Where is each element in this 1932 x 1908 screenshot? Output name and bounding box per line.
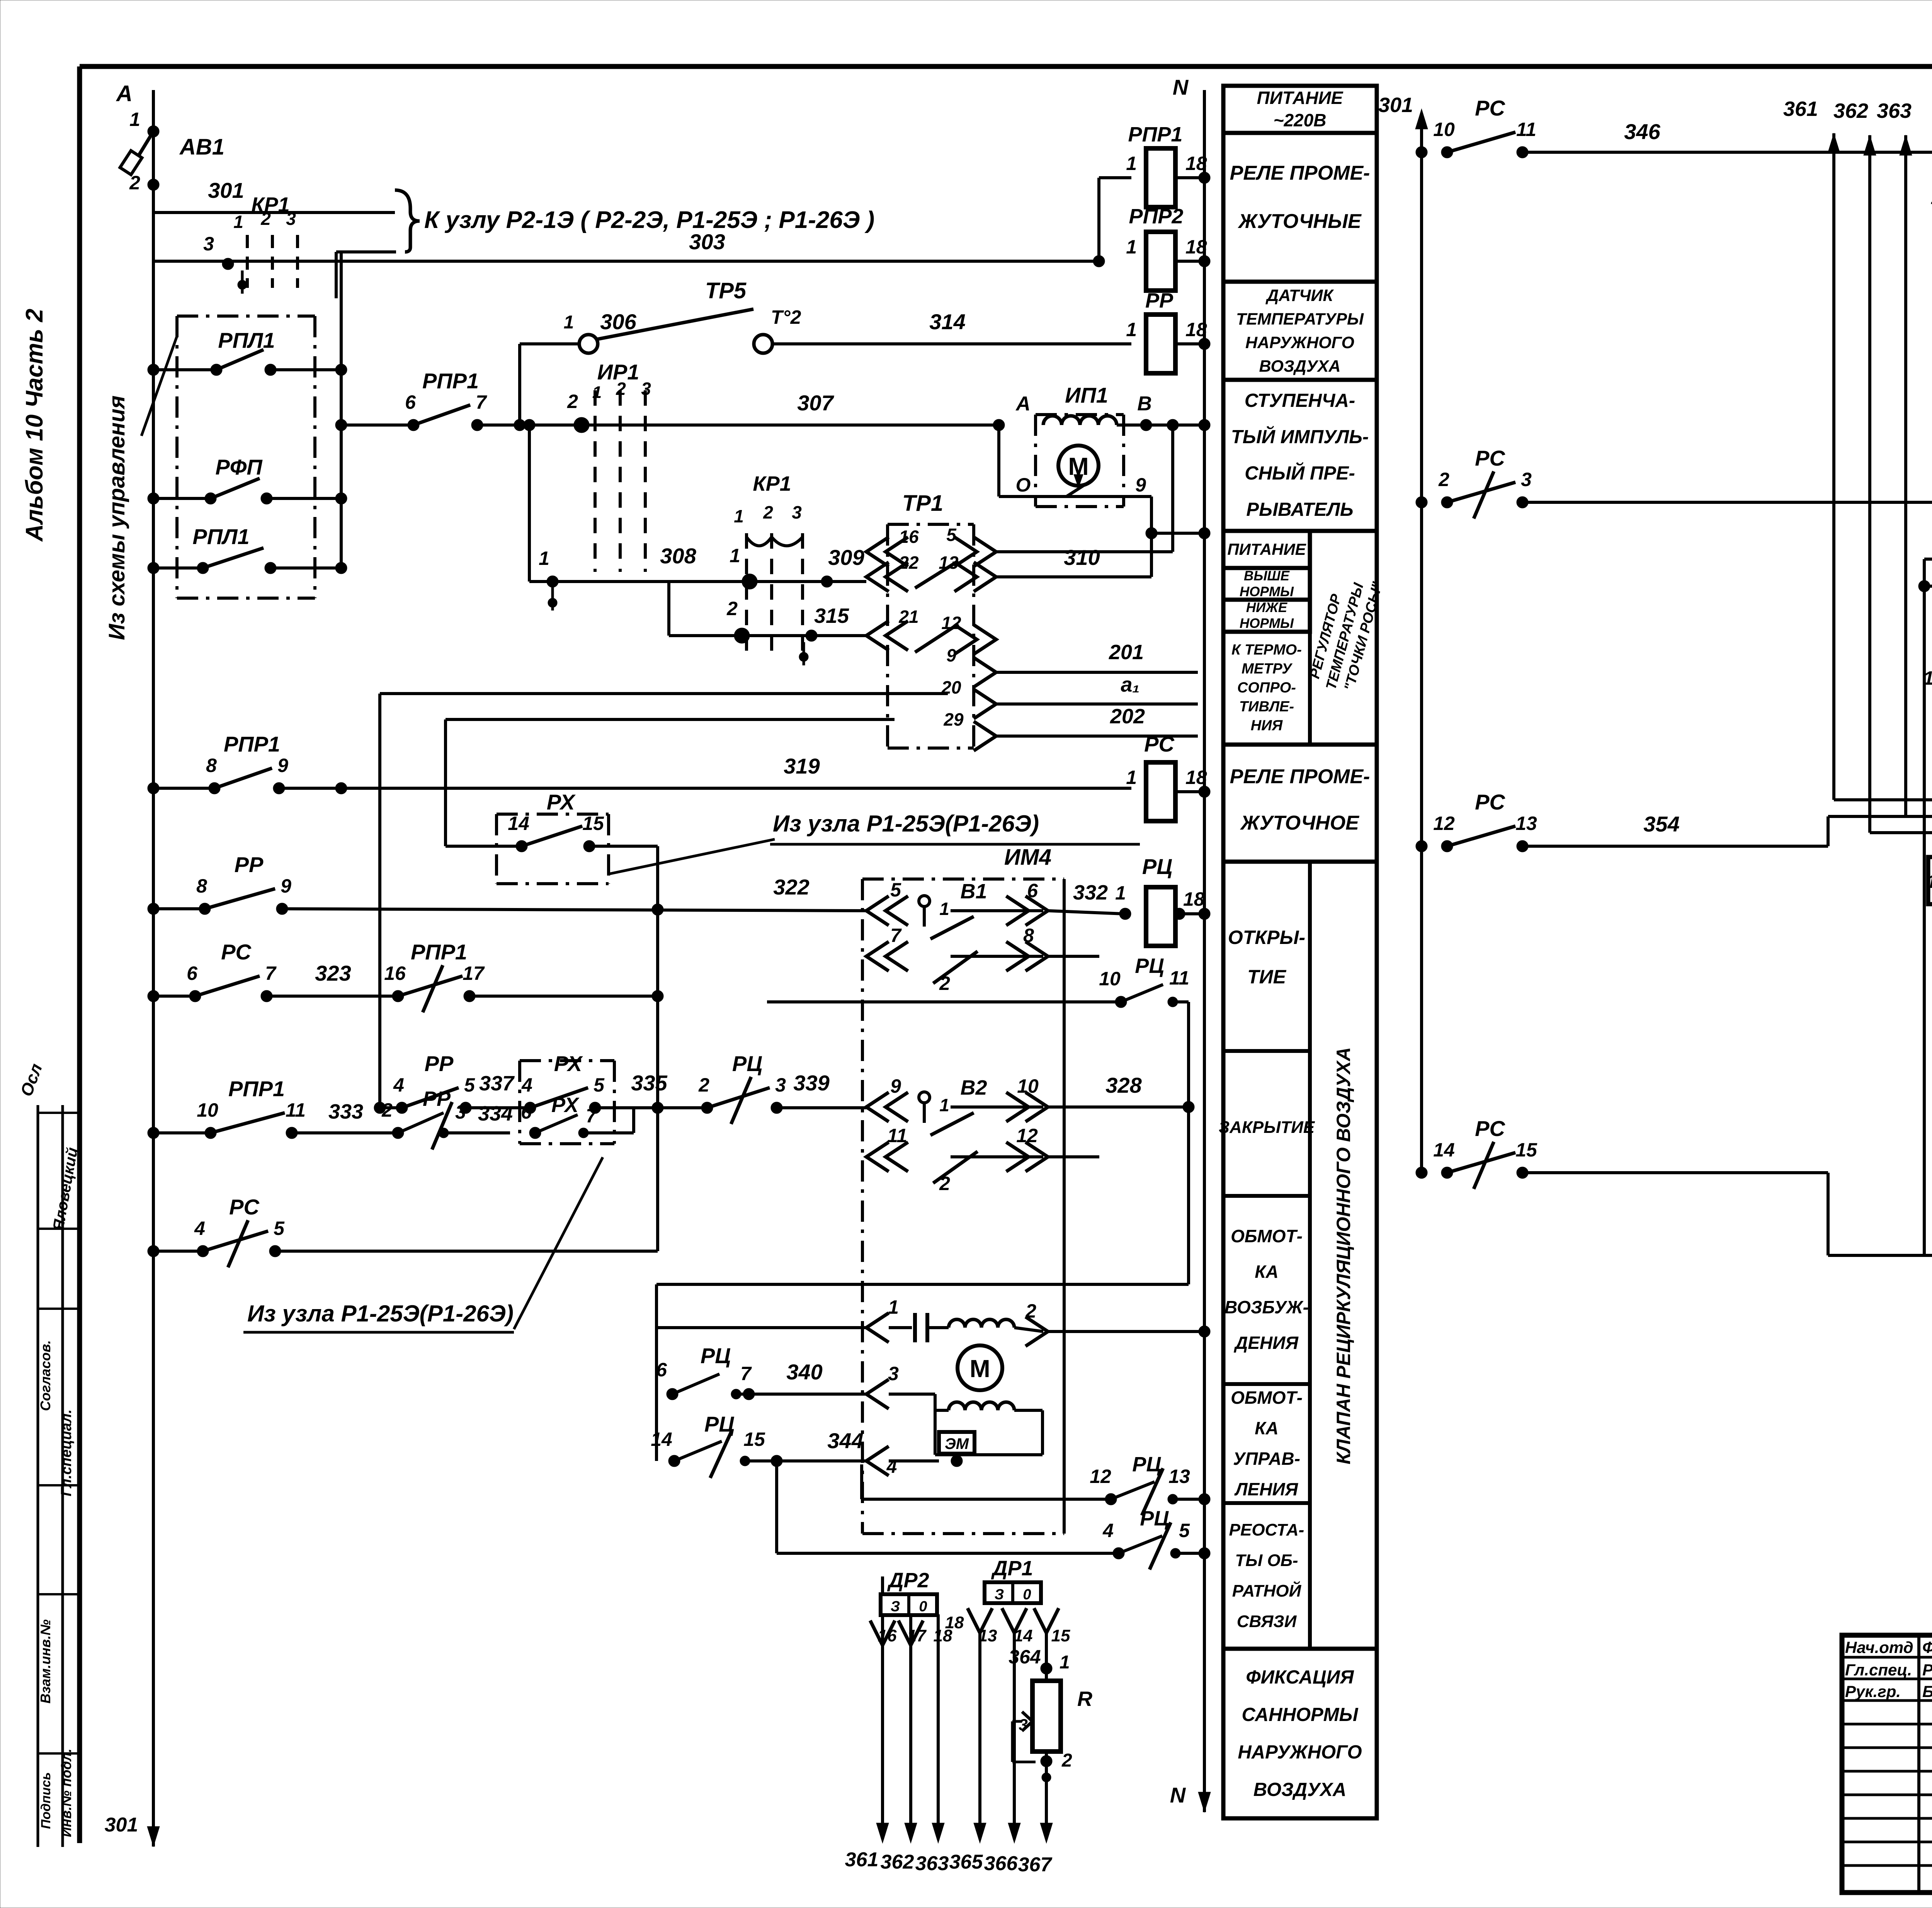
svg-text:4: 4 xyxy=(194,1218,205,1239)
svg-text:18: 18 xyxy=(1185,319,1207,340)
svg-text:УПРАВ-: УПРАВ- xyxy=(1233,1449,1300,1469)
svg-text:РПЛ1: РПЛ1 xyxy=(218,328,275,352)
svg-text:9: 9 xyxy=(946,645,956,665)
svg-text:16: 16 xyxy=(878,1626,897,1645)
svg-text:319: 319 xyxy=(784,754,820,778)
svg-text:307: 307 xyxy=(797,391,834,415)
svg-text:14: 14 xyxy=(651,1428,672,1450)
svg-text:2: 2 xyxy=(616,379,626,399)
svg-text:12: 12 xyxy=(1090,1466,1111,1487)
svg-text:2: 2 xyxy=(939,1173,950,1194)
svg-text:З: З xyxy=(891,1599,900,1615)
svg-text:328: 328 xyxy=(1105,1073,1142,1097)
svg-text:Т°2: Т°2 xyxy=(771,306,801,328)
svg-text:301: 301 xyxy=(105,1814,138,1836)
svg-text:0: 0 xyxy=(1023,1587,1031,1603)
svg-text:362: 362 xyxy=(1833,99,1868,122)
svg-text:3: 3 xyxy=(1019,1716,1027,1734)
svg-text:РС: РС xyxy=(221,940,252,964)
svg-text:3: 3 xyxy=(792,502,802,522)
svg-text:ПИТАНИЕ: ПИТАНИЕ xyxy=(1227,540,1306,558)
svg-text:11: 11 xyxy=(1516,119,1536,140)
svg-text:РФП: РФП xyxy=(215,455,263,479)
svg-text:10: 10 xyxy=(197,1099,218,1121)
svg-text:РЕЛЕ ПРОМЕ-: РЕЛЕ ПРОМЕ- xyxy=(1230,162,1370,184)
svg-text:МЕТРУ: МЕТРУ xyxy=(1242,661,1293,677)
svg-text:5: 5 xyxy=(1179,1520,1190,1541)
svg-text:3: 3 xyxy=(888,1363,899,1384)
svg-text:РС: РС xyxy=(1475,96,1505,120)
svg-text:18: 18 xyxy=(945,1613,964,1632)
svg-text:Альбом 10 Часть 2: Альбом 10 Часть 2 xyxy=(21,309,48,542)
svg-text:ТР5: ТР5 xyxy=(705,278,747,303)
svg-text:339: 339 xyxy=(793,1071,829,1095)
svg-text:1: 1 xyxy=(129,109,140,130)
svg-text:ВОЗДУХА: ВОЗДУХА xyxy=(1253,1779,1346,1800)
svg-text:8: 8 xyxy=(196,875,207,897)
svg-text:7: 7 xyxy=(890,925,902,946)
svg-text:354: 354 xyxy=(1643,812,1679,836)
svg-text:РЦ: РЦ xyxy=(1132,1453,1161,1476)
svg-text:4: 4 xyxy=(1102,1520,1114,1541)
svg-text:1: 1 xyxy=(730,545,740,566)
svg-text:А: А xyxy=(116,81,133,106)
svg-text:15: 15 xyxy=(582,813,604,834)
svg-text:13: 13 xyxy=(1168,1466,1190,1487)
svg-text:КА: КА xyxy=(1255,1418,1279,1438)
svg-text:Рук.гр.: Рук.гр. xyxy=(1845,1682,1901,1701)
svg-text:ТЫЙ ИМПУЛЬ-: ТЫЙ ИМПУЛЬ- xyxy=(1231,426,1369,447)
svg-text:2: 2 xyxy=(939,973,950,994)
svg-text:РС: РС xyxy=(229,1195,260,1219)
svg-text:N: N xyxy=(1173,75,1189,99)
svg-text:1: 1 xyxy=(939,899,949,919)
svg-text:РЦ: РЦ xyxy=(701,1343,731,1368)
svg-text:310: 310 xyxy=(1064,545,1100,570)
svg-text:1: 1 xyxy=(539,548,549,569)
svg-text:ВОЗБУЖ-: ВОЗБУЖ- xyxy=(1225,1297,1309,1317)
svg-text:16: 16 xyxy=(384,963,406,984)
svg-text:17: 17 xyxy=(463,963,485,984)
svg-text:2: 2 xyxy=(726,598,738,619)
svg-text:9: 9 xyxy=(277,755,288,776)
svg-text:22: 22 xyxy=(898,553,919,573)
svg-text:6: 6 xyxy=(1027,880,1038,901)
svg-text:1: 1 xyxy=(1126,236,1137,258)
svg-text:1: 1 xyxy=(1927,872,1932,892)
svg-text:7: 7 xyxy=(265,963,277,984)
svg-text:2: 2 xyxy=(567,391,578,412)
svg-text:2: 2 xyxy=(381,1099,393,1121)
svg-text:2: 2 xyxy=(129,172,140,194)
svg-text:ДАТЧИК: ДАТЧИК xyxy=(1265,286,1334,305)
svg-text:14: 14 xyxy=(1014,1626,1033,1645)
svg-text:6: 6 xyxy=(656,1359,667,1381)
svg-text:а₁: а₁ xyxy=(1121,673,1139,696)
svg-text:3: 3 xyxy=(775,1074,786,1096)
svg-text:323: 323 xyxy=(315,961,351,985)
svg-text:Из узла Р1-25Э(Р1-26Э): Из узла Р1-25Э(Р1-26Э) xyxy=(247,1301,514,1326)
svg-text:ТЕМПЕРАТУРЫ: ТЕМПЕРАТУРЫ xyxy=(1236,310,1364,328)
svg-text:ФИКСАЦИЯ: ФИКСАЦИЯ xyxy=(1246,1667,1354,1688)
svg-text:СВЯЗИ: СВЯЗИ xyxy=(1237,1612,1297,1631)
svg-text:8: 8 xyxy=(1023,925,1034,946)
svg-text:Бронштейн: Бронштейн xyxy=(1922,1682,1932,1701)
svg-text:ТЫ ОБ-: ТЫ ОБ- xyxy=(1235,1551,1298,1570)
svg-text:315: 315 xyxy=(814,604,849,627)
svg-text:7: 7 xyxy=(740,1363,752,1384)
svg-text:РР: РР xyxy=(235,852,264,877)
svg-text:5: 5 xyxy=(274,1218,285,1239)
svg-text:1: 1 xyxy=(233,212,243,232)
svg-text:8: 8 xyxy=(206,755,217,776)
svg-text:З: З xyxy=(995,1587,1004,1603)
svg-text:13: 13 xyxy=(1515,813,1537,834)
svg-text:337: 337 xyxy=(479,1072,515,1095)
svg-text:15: 15 xyxy=(743,1428,765,1450)
svg-text:НИЖЕ: НИЖЕ xyxy=(1246,600,1288,615)
svg-text:ДР2: ДР2 xyxy=(887,1569,929,1592)
svg-text:1: 1 xyxy=(1126,153,1137,174)
svg-text:362: 362 xyxy=(881,1851,914,1873)
svg-text:18: 18 xyxy=(1185,236,1207,258)
svg-text:РС: РС xyxy=(1475,1116,1505,1141)
svg-text:301: 301 xyxy=(208,178,244,202)
svg-text:10: 10 xyxy=(1099,968,1121,990)
svg-text:РР: РР xyxy=(423,1087,451,1110)
svg-text:Из схемы управления: Из схемы управления xyxy=(104,395,129,640)
svg-text:9: 9 xyxy=(281,875,291,897)
svg-text:1: 1 xyxy=(939,1095,949,1115)
svg-text:РХ: РХ xyxy=(547,790,576,814)
svg-text:6: 6 xyxy=(187,963,198,984)
svg-text:12: 12 xyxy=(1016,1125,1038,1146)
svg-text:363: 363 xyxy=(1877,99,1912,122)
svg-text:4: 4 xyxy=(521,1074,532,1096)
svg-text:СТУПЕНЧА-: СТУПЕНЧА- xyxy=(1245,390,1355,411)
svg-text:11: 11 xyxy=(286,1099,306,1121)
svg-text:ЗАКРЫТИЕ: ЗАКРЫТИЕ xyxy=(1219,1118,1315,1137)
svg-text:РХ: РХ xyxy=(554,1051,583,1076)
svg-text:308: 308 xyxy=(660,544,696,568)
svg-text:~220В: ~220В xyxy=(1274,110,1327,130)
svg-text:11: 11 xyxy=(887,1125,907,1146)
svg-text:РЦ: РЦ xyxy=(704,1412,735,1436)
svg-text:9: 9 xyxy=(890,1075,901,1097)
svg-text:РПР1: РПР1 xyxy=(228,1076,285,1101)
svg-text:РЦ: РЦ xyxy=(1135,954,1164,978)
svg-text:Фингер: Фингер xyxy=(1922,1638,1932,1656)
svg-text:ОБМОТ-: ОБМОТ- xyxy=(1231,1226,1303,1246)
svg-text:РПР1: РПР1 xyxy=(1128,123,1183,146)
svg-text:РС: РС xyxy=(1144,732,1175,756)
svg-text:ВЫШЕ: ВЫШЕ xyxy=(1244,568,1290,583)
svg-text:О: О xyxy=(1016,474,1031,496)
svg-text:Взам.инв.№: Взам.инв.№ xyxy=(37,1619,53,1704)
svg-text:309: 309 xyxy=(828,545,864,570)
svg-text:12: 12 xyxy=(1433,813,1455,834)
svg-text:ИМ4: ИМ4 xyxy=(1004,845,1051,870)
svg-text:0: 0 xyxy=(919,1599,927,1615)
svg-text:ЛЕНИЯ: ЛЕНИЯ xyxy=(1234,1479,1299,1499)
svg-text:АВ1: АВ1 xyxy=(179,134,224,160)
svg-text:КР1: КР1 xyxy=(251,193,289,216)
svg-text:ТР1: ТР1 xyxy=(902,491,943,516)
svg-text:К узлу Р2-1Э ( Р2-2Э, Р1-25Э ;: К узлу Р2-1Э ( Р2-2Э, Р1-25Э ; Р1-26Э ) xyxy=(424,207,874,233)
svg-text:РР: РР xyxy=(1145,289,1173,312)
svg-text:2: 2 xyxy=(763,502,773,522)
svg-text:СОПРО-: СОПРО- xyxy=(1237,680,1296,696)
svg-text:364: 364 xyxy=(1009,1646,1041,1668)
svg-text:2: 2 xyxy=(1061,1750,1072,1771)
svg-text:ЖУТОЧНОЕ: ЖУТОЧНОЕ xyxy=(1240,812,1359,834)
svg-text:РАТНОЙ: РАТНОЙ xyxy=(1232,1581,1302,1600)
svg-text:10: 10 xyxy=(1433,119,1455,140)
svg-text:РС: РС xyxy=(1475,790,1505,814)
svg-text:3: 3 xyxy=(641,379,651,399)
svg-text:Инв.№ подл.: Инв.№ подл. xyxy=(58,1748,74,1837)
svg-text:НИЯ: НИЯ xyxy=(1251,718,1283,734)
svg-text:РПР1: РПР1 xyxy=(224,732,280,756)
svg-text:301: 301 xyxy=(1378,94,1413,117)
svg-text:17: 17 xyxy=(907,1626,927,1645)
svg-text:Подпись: Подпись xyxy=(39,1772,53,1829)
svg-text:344: 344 xyxy=(827,1428,863,1453)
svg-text:НОРМЫ: НОРМЫ xyxy=(1240,616,1294,631)
svg-text:РПР1: РПР1 xyxy=(422,369,479,393)
svg-text:РПР1: РПР1 xyxy=(411,940,467,964)
svg-text:ДЕНИЯ: ДЕНИЯ xyxy=(1233,1333,1299,1353)
svg-text:5: 5 xyxy=(464,1074,475,1096)
svg-text:363: 363 xyxy=(915,1852,949,1875)
svg-text:В: В xyxy=(1137,393,1152,415)
svg-text:5: 5 xyxy=(946,525,957,545)
svg-text:314: 314 xyxy=(929,309,965,334)
svg-text:361: 361 xyxy=(845,1848,879,1871)
svg-text:РХ: РХ xyxy=(551,1093,580,1117)
svg-text:1: 1 xyxy=(1126,319,1137,340)
svg-text:Рубчинский: Рубчинский xyxy=(1922,1661,1932,1679)
svg-text:334: 334 xyxy=(478,1102,513,1125)
svg-text:ПИТАНИЕ: ПИТАНИЕ xyxy=(1257,88,1344,108)
svg-text:15: 15 xyxy=(1515,1139,1537,1161)
svg-text:1: 1 xyxy=(1115,882,1126,904)
svg-text:6: 6 xyxy=(405,391,416,413)
svg-text:29: 29 xyxy=(943,709,964,730)
svg-text:10: 10 xyxy=(1017,1075,1039,1097)
svg-text:1: 1 xyxy=(1931,188,1932,208)
svg-text:16: 16 xyxy=(899,527,919,547)
svg-text:1: 1 xyxy=(734,506,744,526)
svg-text:361: 361 xyxy=(1783,97,1818,121)
svg-text:К ТЕРМО-: К ТЕРМО- xyxy=(1231,642,1302,658)
svg-text:РПЛ1: РПЛ1 xyxy=(192,524,249,549)
svg-text:В1: В1 xyxy=(960,880,987,903)
svg-text:201: 201 xyxy=(1109,641,1144,664)
svg-text:14: 14 xyxy=(1923,667,1932,689)
svg-text:14: 14 xyxy=(508,813,529,834)
svg-text:N: N xyxy=(1170,1783,1186,1807)
svg-text:Нач.отд: Нач.отд xyxy=(1845,1638,1913,1656)
svg-text:11: 11 xyxy=(1169,967,1189,989)
svg-text:КР1: КР1 xyxy=(753,472,791,495)
svg-text:202: 202 xyxy=(1110,705,1145,728)
svg-text:322: 322 xyxy=(773,875,809,899)
svg-text:5: 5 xyxy=(594,1074,605,1096)
svg-text:7: 7 xyxy=(476,391,487,413)
svg-text:332: 332 xyxy=(1073,881,1108,904)
svg-text:5: 5 xyxy=(890,879,901,901)
svg-text:САННОРМЫ: САННОРМЫ xyxy=(1242,1704,1359,1725)
svg-text:1: 1 xyxy=(888,1296,899,1318)
svg-text:М: М xyxy=(969,1355,990,1383)
svg-text:333: 333 xyxy=(328,1100,363,1123)
svg-text:2: 2 xyxy=(1438,469,1449,490)
svg-text:4: 4 xyxy=(393,1074,404,1096)
svg-text:2: 2 xyxy=(698,1074,709,1096)
svg-text:РЦ: РЦ xyxy=(1140,1507,1169,1530)
svg-text:1: 1 xyxy=(592,383,602,402)
svg-text:1: 1 xyxy=(1060,1652,1070,1673)
svg-text:РЫВАТЕЛЬ: РЫВАТЕЛЬ xyxy=(1246,499,1353,520)
svg-text:306: 306 xyxy=(600,309,636,334)
svg-text:ЖУТОЧНЫЕ: ЖУТОЧНЫЕ xyxy=(1237,210,1362,233)
svg-text:НОРМЫ: НОРМЫ xyxy=(1240,584,1294,599)
svg-text:Согласов.: Согласов. xyxy=(37,1340,53,1411)
svg-text:340: 340 xyxy=(786,1360,822,1384)
svg-text:14: 14 xyxy=(1433,1139,1455,1161)
svg-text:Гл.специал.: Гл.специал. xyxy=(58,1409,75,1496)
svg-text:НАРУЖНОГО: НАРУЖНОГО xyxy=(1245,333,1354,352)
svg-text:365: 365 xyxy=(949,1851,983,1873)
svg-text:А: А xyxy=(1015,393,1031,415)
svg-text:ИП1: ИП1 xyxy=(1065,383,1108,407)
svg-text:1: 1 xyxy=(1126,767,1137,788)
svg-text:3: 3 xyxy=(203,233,214,255)
svg-text:Из узла Р1-25Э(Р1-26Э): Из узла Р1-25Э(Р1-26Э) xyxy=(773,811,1039,837)
svg-text:2: 2 xyxy=(1025,1300,1036,1322)
svg-text:РЕОСТА-: РЕОСТА- xyxy=(1229,1520,1304,1539)
svg-text:18: 18 xyxy=(1183,888,1205,910)
svg-text:ОТКРЫ-: ОТКРЫ- xyxy=(1228,927,1305,948)
svg-text:335: 335 xyxy=(631,1071,667,1095)
svg-text:303: 303 xyxy=(689,230,725,254)
svg-text:КА: КА xyxy=(1255,1262,1279,1282)
svg-text:R: R xyxy=(1077,1687,1092,1711)
svg-text:РПР2: РПР2 xyxy=(1129,205,1184,228)
svg-text:РЦ: РЦ xyxy=(1142,854,1172,879)
svg-text:РЕЛЕ ПРОМЕ-: РЕЛЕ ПРОМЕ- xyxy=(1230,765,1370,788)
svg-text:ДР1: ДР1 xyxy=(991,1557,1033,1580)
svg-text:СНЫЙ ПРЕ-: СНЫЙ ПРЕ- xyxy=(1245,463,1355,484)
svg-text:ОБМОТ-: ОБМОТ- xyxy=(1231,1388,1303,1408)
svg-text:КЛАПАН РЕЦИРКУЛЯЦИОННОГО ВОЗДУ: КЛАПАН РЕЦИРКУЛЯЦИОННОГО ВОЗДУХА xyxy=(1333,1047,1354,1464)
svg-text:3: 3 xyxy=(1521,469,1532,490)
svg-text:ЭМ: ЭМ xyxy=(945,1435,969,1452)
svg-text:РС: РС xyxy=(1475,446,1505,470)
svg-text:РЦ: РЦ xyxy=(732,1051,762,1076)
svg-text:ТИВЛЕ-: ТИВЛЕ- xyxy=(1239,699,1294,715)
svg-text:1: 1 xyxy=(564,312,574,333)
svg-text:ТИЕ: ТИЕ xyxy=(1247,966,1287,988)
svg-text:3: 3 xyxy=(455,1101,466,1123)
svg-text:15: 15 xyxy=(1051,1626,1070,1645)
svg-text:6: 6 xyxy=(521,1101,532,1123)
svg-text:18: 18 xyxy=(1185,767,1207,788)
svg-text:7: 7 xyxy=(586,1105,597,1127)
svg-text:Гл.спец.: Гл.спец. xyxy=(1845,1661,1912,1679)
svg-text:21: 21 xyxy=(898,607,918,627)
svg-text:18: 18 xyxy=(1185,153,1207,174)
svg-text:В2: В2 xyxy=(960,1076,987,1099)
svg-text:367: 367 xyxy=(1018,1854,1053,1876)
svg-text:9: 9 xyxy=(1135,474,1146,496)
svg-text:366: 366 xyxy=(984,1852,1018,1875)
svg-text:НАРУЖНОГО: НАРУЖНОГО xyxy=(1238,1742,1362,1763)
svg-text:346: 346 xyxy=(1624,119,1660,144)
svg-text:РР: РР xyxy=(425,1051,454,1076)
svg-text:ВОЗДУХА: ВОЗДУХА xyxy=(1259,357,1341,376)
